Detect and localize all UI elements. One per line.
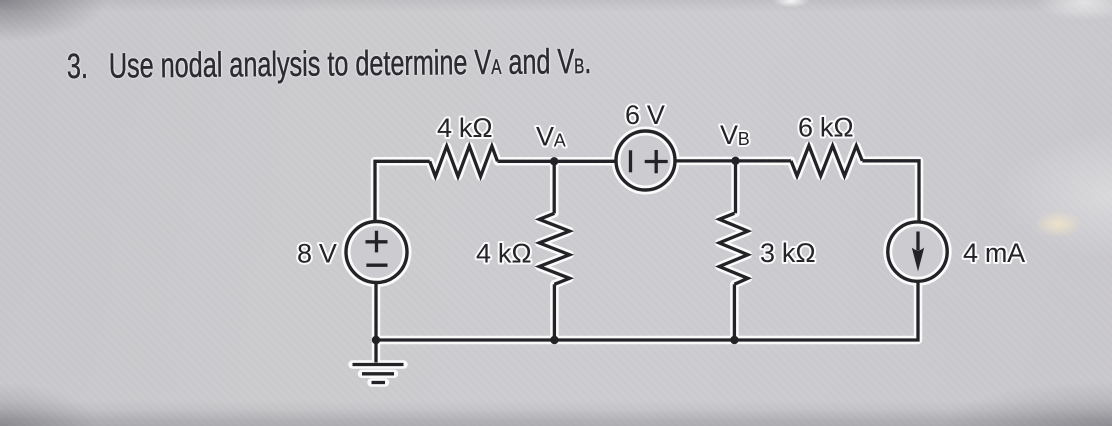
minus bar inside 6V source: [629, 150, 632, 172]
resistor R2 6 kOhm (top right, horizontal): [791, 146, 862, 176]
svg-text:6 kΩ: 6 kΩ: [798, 113, 854, 143]
resistor R3 4 kOhm (middle, vertical): [539, 213, 569, 284]
wire top-left L (from R1 left end, to left edge, down to 8V source): [375, 161, 430, 221]
resistor R1 4 kOhm (top left, horizontal): [430, 146, 498, 176]
svg-text:4 mA: 4 mA: [963, 238, 1025, 268]
arrow inside current source (pointing down): [912, 232, 924, 272]
wire R3 to bottom rail: [553, 284, 556, 340]
white halo layer under all circuit ink: [346, 131, 947, 383]
junction dot ground node: [372, 336, 380, 344]
current source I1 4 mA (circle): [888, 222, 947, 281]
wire R4 to bottom rail: [733, 284, 736, 340]
voltage source V1 8 V (circle): [346, 222, 407, 283]
ground symbol (three bars): [353, 365, 404, 383]
junction dot bottom of branch A: [550, 336, 558, 344]
wire node A to R3: [553, 161, 556, 213]
junction dot bottom of branch B: [730, 336, 738, 344]
svg-text:VB: VB: [720, 120, 750, 150]
plus sign inside 6V source: [645, 150, 668, 173]
node B junction dot: [731, 157, 739, 165]
plus sign inside 8V source: [366, 231, 388, 253]
ground stub wire: [374, 340, 377, 363]
wire V2 to R2 (through node B): [675, 159, 791, 162]
wire top-right L (R2 to corner, down to current source): [862, 161, 919, 222]
resistor R4 3 kOhm (vertical): [719, 213, 748, 284]
svg-text:6 V: 6 V: [625, 100, 665, 130]
minus bar inside 8V source: [366, 264, 387, 267]
bottom rail U-shape (8V source down, bottom wire, up to current source): [376, 281, 918, 340]
svg-text:8 V: 8 V: [297, 239, 337, 269]
svg-text:3 kΩ: 3 kΩ: [760, 238, 816, 268]
node A junction dot: [550, 157, 558, 165]
wire node B to R4: [734, 161, 737, 214]
svg-text:VA: VA: [536, 122, 566, 152]
title: problem statement text: [67, 44, 592, 84]
svg-text:4 kΩ: 4 kΩ: [437, 113, 493, 143]
voltage source V2 6 V (series circle): [616, 131, 675, 190]
svg-text:4 kΩ: 4 kΩ: [476, 239, 532, 269]
wire R1 to voltage source V2 (through node A): [498, 160, 617, 163]
